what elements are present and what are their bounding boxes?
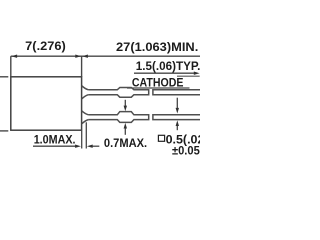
extension line left of 7 dim <box>10 56 12 77</box>
bottom lead left segment with crimp <box>88 112 148 123</box>
arrowhead left of 27 dim <box>82 55 88 58</box>
flare bottom lead <box>82 111 89 124</box>
extension line A (body edge) <box>81 131 83 149</box>
0.7MAX lower arrow <box>124 127 126 135</box>
extension line right of 7 dim <box>81 56 83 77</box>
svg-text:0.7MAX.: 0.7MAX. <box>104 136 147 150</box>
flare top lead <box>82 86 89 99</box>
extension line right near 1.5 dim <box>177 75 200 77</box>
extension line B (flare tip) <box>85 122 87 148</box>
LED body outline <box>11 77 82 130</box>
top lead right segment <box>153 90 200 95</box>
1.0MAX left-pointing arrow with tail <box>91 145 99 147</box>
arrowhead right of 1.5 dim <box>194 72 200 75</box>
wire left stub bottom <box>0 130 8 132</box>
arrowhead left of 7 dim <box>11 55 17 58</box>
dimension line 1.5 TYP <box>134 72 195 74</box>
top lead left segment with crimp <box>88 88 148 98</box>
leader under CATHODE <box>127 87 190 89</box>
bottom lead right segment <box>153 115 200 120</box>
svg-text:±0.05: ±0.05 <box>172 144 200 158</box>
0.5 lower arrow <box>176 124 178 130</box>
square symbol <box>158 135 164 141</box>
1.0MAX dim line with right arrow <box>33 145 77 147</box>
svg-text:1.5(.06)TYP.: 1.5(.06)TYP. <box>136 59 200 73</box>
0.7MAX upper arrow <box>124 100 126 107</box>
wire left stub top <box>0 76 8 78</box>
svg-text:27(1.063)MIN.: 27(1.063)MIN. <box>116 40 198 54</box>
svg-text:1.0MAX.: 1.0MAX. <box>34 132 76 146</box>
dimension line 7(.276) and 27(1.063)MIN <box>11 55 200 57</box>
arrowhead right of 7 dim <box>75 55 81 58</box>
svg-text:7(.276): 7(.276) <box>25 39 66 53</box>
0.5 upper arrow <box>176 98 178 110</box>
